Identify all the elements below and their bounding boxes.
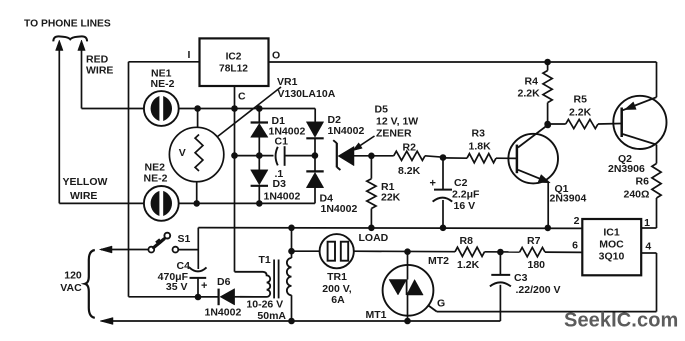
svg-text:R4: R4: [525, 75, 539, 87]
svg-text:2N3904: 2N3904: [550, 193, 587, 205]
svg-text:6: 6: [572, 239, 578, 251]
svg-text:IC1: IC1: [603, 226, 620, 238]
svg-text:50mA: 50mA: [257, 310, 286, 322]
svg-text:C2: C2: [454, 177, 468, 189]
svg-text:SeekIC.com: SeekIC.com: [564, 310, 678, 332]
svg-text:R7: R7: [527, 235, 541, 247]
svg-text:10-26 V: 10-26 V: [246, 298, 283, 310]
svg-text:T1: T1: [259, 254, 271, 266]
svg-text:2.2μF: 2.2μF: [452, 188, 480, 200]
svg-text:V130LA10A: V130LA10A: [278, 88, 336, 100]
svg-text:1.2K: 1.2K: [457, 259, 480, 271]
svg-text:1N4002: 1N4002: [328, 125, 365, 137]
svg-text:1N4002: 1N4002: [264, 191, 301, 203]
svg-text:ZENER: ZENER: [376, 128, 412, 140]
svg-text:12 V, 1W: 12 V, 1W: [376, 115, 418, 127]
svg-text:R3: R3: [472, 127, 486, 139]
svg-text:180: 180: [528, 259, 546, 271]
svg-text:+: +: [201, 280, 207, 292]
svg-text:VR1: VR1: [277, 76, 298, 88]
svg-text:2.2K: 2.2K: [569, 107, 592, 119]
svg-text:16 V: 16 V: [454, 200, 476, 212]
svg-text:8.2K: 8.2K: [398, 165, 421, 177]
svg-text:2N3906: 2N3906: [608, 163, 645, 175]
svg-text:NE-2: NE-2: [151, 78, 175, 90]
svg-text:6A: 6A: [331, 294, 345, 306]
svg-text:TO PHONE LINES: TO PHONE LINES: [24, 18, 111, 29]
svg-text:22K: 22K: [381, 191, 401, 203]
svg-text:V: V: [179, 147, 186, 159]
svg-text:3Q10: 3Q10: [599, 251, 625, 263]
svg-text:WIRE: WIRE: [70, 190, 97, 202]
svg-text:1N4002: 1N4002: [205, 306, 242, 318]
svg-text:C: C: [238, 90, 246, 102]
svg-text:+: +: [430, 178, 436, 190]
svg-text:I: I: [188, 49, 191, 61]
svg-text:R5: R5: [574, 93, 588, 105]
svg-text:C1: C1: [275, 135, 289, 147]
svg-text:120: 120: [64, 269, 82, 281]
svg-text:O: O: [272, 50, 280, 62]
svg-text:MT1: MT1: [366, 309, 387, 321]
svg-text:YELLOW: YELLOW: [63, 176, 108, 188]
svg-text:LOAD: LOAD: [359, 232, 389, 244]
svg-text:1N4002: 1N4002: [321, 203, 358, 215]
svg-text:R2: R2: [403, 141, 417, 153]
svg-text:4: 4: [645, 240, 651, 252]
svg-text:2.2K: 2.2K: [518, 88, 541, 100]
svg-text:D6: D6: [217, 276, 231, 288]
svg-text:D3: D3: [273, 178, 287, 190]
svg-text:NE-2: NE-2: [144, 172, 168, 184]
svg-text:35 V: 35 V: [166, 281, 188, 293]
svg-text:IC2: IC2: [226, 51, 242, 62]
svg-text:.22/200 V: .22/200 V: [516, 284, 561, 296]
svg-text:MT2: MT2: [428, 255, 449, 267]
svg-text:TR1: TR1: [327, 271, 347, 283]
svg-text:S1: S1: [178, 233, 191, 245]
svg-text:78L12: 78L12: [219, 63, 248, 74]
svg-text:2: 2: [574, 215, 580, 227]
svg-text:R8: R8: [460, 235, 474, 247]
svg-text:VAC: VAC: [60, 282, 82, 294]
svg-text:1.8K: 1.8K: [469, 140, 492, 152]
svg-text:R6: R6: [636, 175, 650, 187]
svg-text:240Ω: 240Ω: [624, 189, 650, 201]
svg-text:D5: D5: [375, 103, 389, 115]
svg-text:1: 1: [644, 217, 650, 229]
svg-text:C3: C3: [514, 272, 528, 284]
svg-text:G: G: [437, 297, 445, 309]
svg-text:WIRE: WIRE: [86, 64, 113, 76]
svg-text:MOC: MOC: [599, 239, 624, 251]
